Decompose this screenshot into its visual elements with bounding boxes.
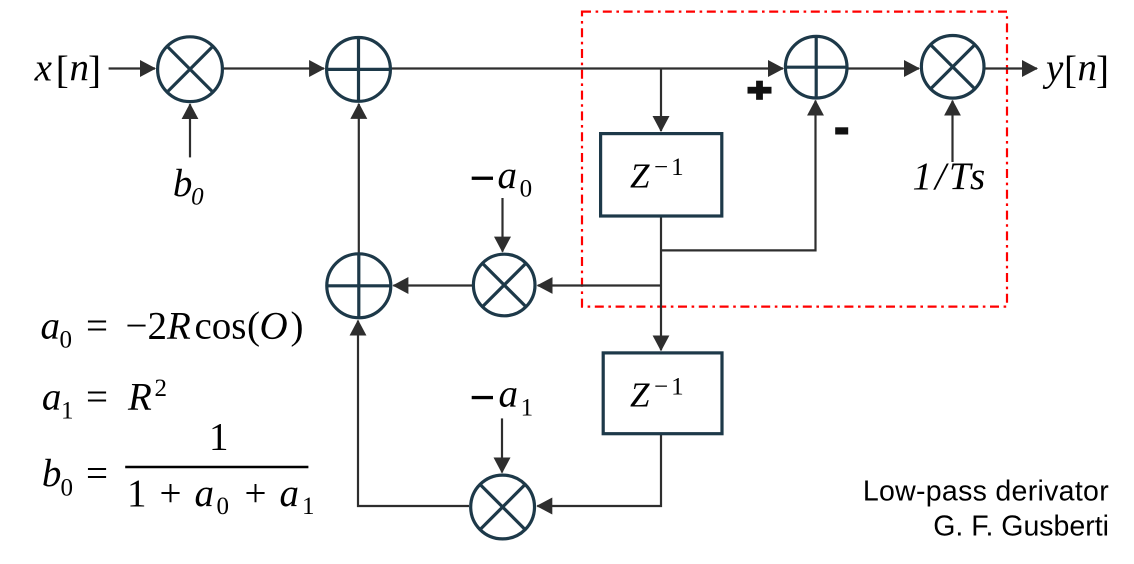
svg-text:cos: cos: [195, 305, 247, 348]
svg-text:−2: −2: [126, 305, 168, 348]
svg-text:): ): [291, 305, 304, 348]
svg-text:1: 1: [61, 398, 74, 425]
svg-text:O: O: [260, 305, 288, 348]
svg-text:0: 0: [217, 493, 230, 520]
svg-text:a: a: [195, 472, 215, 515]
svg-text:1: 1: [209, 416, 229, 459]
svg-text:−1: −1: [654, 373, 687, 400]
svg-text:Z: Z: [630, 376, 650, 415]
svg-text:a: a: [42, 376, 62, 419]
svg-text:a: a: [498, 154, 518, 197]
svg-text:=: =: [86, 305, 108, 348]
svg-text:a: a: [499, 373, 519, 416]
svg-text:0: 0: [61, 475, 74, 502]
svg-text:a: a: [280, 472, 300, 515]
svg-text:b: b: [173, 162, 193, 205]
svg-text:]: ]: [1096, 49, 1109, 92]
svg-text:=: =: [86, 452, 108, 495]
svg-text:b: b: [42, 452, 62, 495]
svg-text:[: [: [1064, 49, 1077, 92]
svg-text:n: n: [1078, 46, 1098, 89]
svg-text:1: 1: [521, 395, 534, 422]
svg-text:0: 0: [520, 176, 533, 203]
svg-text:+: +: [160, 472, 182, 515]
svg-text:[: [: [56, 49, 69, 92]
svg-text:=: =: [86, 376, 108, 419]
svg-text:−1: −1: [654, 154, 687, 181]
svg-text:R: R: [166, 305, 191, 348]
svg-text:1/Ts: 1/Ts: [913, 155, 989, 198]
svg-text:R: R: [127, 376, 152, 419]
svg-text:1: 1: [127, 472, 147, 515]
svg-text:n: n: [70, 46, 90, 89]
svg-text:1: 1: [302, 493, 315, 520]
svg-text:y: y: [1042, 46, 1064, 89]
svg-text:Z: Z: [630, 156, 650, 195]
svg-text:0: 0: [60, 327, 73, 354]
svg-text:Low-pass derivator: Low-pass derivator: [863, 476, 1109, 508]
svg-text:(: (: [247, 305, 260, 348]
svg-text:G. F. Gusberti: G. F. Gusberti: [933, 511, 1109, 543]
svg-text:2: 2: [155, 375, 168, 402]
svg-text:x: x: [34, 46, 53, 89]
svg-text:a: a: [41, 305, 61, 348]
svg-text:+: +: [245, 472, 267, 515]
svg-text:0: 0: [191, 184, 204, 211]
svg-text:]: ]: [88, 49, 101, 92]
